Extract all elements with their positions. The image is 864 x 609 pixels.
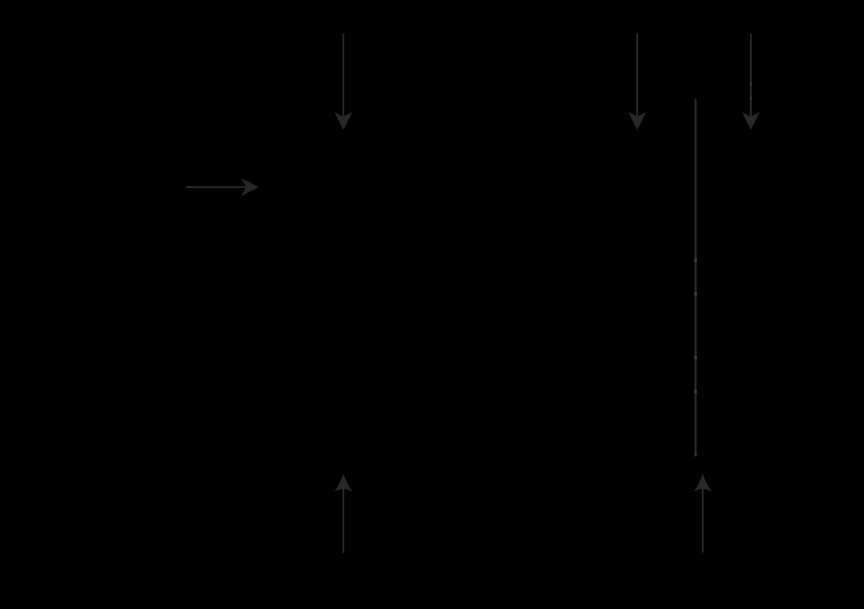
joint dot: [694, 292, 696, 295]
arrowhead: [628, 112, 646, 130]
end nub: [694, 453, 696, 456]
wire: [695, 99, 697, 456]
wire: [702, 489, 704, 553]
down arrow 2 (middle, x=637): [628, 34, 646, 130]
joint dot: [694, 390, 696, 393]
wire: [636, 34, 638, 118]
wire: [343, 489, 345, 554]
wire: [186, 186, 246, 188]
right arrow (x=186..259, y=187): [186, 178, 259, 196]
down arrow 1 (left, x=343): [334, 34, 352, 130]
wire: [750, 34, 752, 118]
down arrow 3 (right, x=751): [742, 34, 760, 130]
joint dot: [694, 356, 696, 359]
vertical line (x=695.6, y=99..456): [694, 99, 696, 456]
arrowhead: [241, 178, 259, 196]
arrowhead: [694, 474, 712, 492]
joint dot: [694, 259, 696, 262]
up arrow 2 (right, x=702.7): [694, 474, 712, 553]
joint dot: [750, 83, 752, 86]
wire: [343, 34, 345, 118]
arrowhead: [334, 112, 352, 130]
arrowhead: [742, 112, 760, 130]
arrowhead: [334, 474, 352, 492]
joint dot: [750, 97, 752, 100]
up arrow 1 (left, x=343): [334, 474, 352, 553]
